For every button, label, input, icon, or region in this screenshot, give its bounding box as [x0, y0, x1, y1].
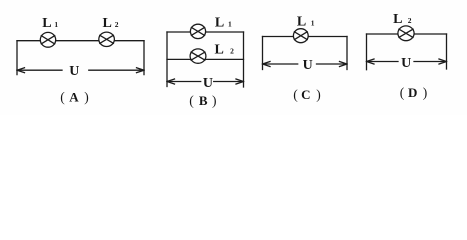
- circuit D right vertical wire: [446, 34, 448, 69]
- circuit A top wire: [17, 40, 144, 42]
- circuit B right vertical wire: [243, 32, 245, 87]
- lamp L1 (circuit A): [40, 32, 55, 47]
- label L1 of lamp L1 (circuit A): [42, 16, 58, 31]
- svg-text:L: L: [215, 43, 224, 58]
- svg-text:L: L: [103, 16, 112, 31]
- svg-text:): ): [316, 87, 321, 102]
- circuit B left vertical wire: [166, 32, 168, 87]
- circuit D left vertical wire: [366, 34, 368, 70]
- svg-text:D: D: [408, 85, 417, 100]
- circuit A right vertical wire: [143, 41, 145, 75]
- svg-text:): ): [212, 93, 217, 108]
- svg-text:2: 2: [408, 16, 412, 25]
- svg-text:L: L: [297, 15, 306, 30]
- svg-text:B: B: [199, 93, 208, 108]
- svg-text:A: A: [69, 90, 79, 105]
- voltage arrow U (circuit D): [367, 59, 447, 64]
- svg-text:2: 2: [115, 20, 119, 29]
- svg-text:U: U: [203, 76, 213, 91]
- label L1 of lamp L1 (circuit C): [297, 15, 315, 30]
- svg-text:L: L: [42, 16, 51, 31]
- svg-text:C: C: [301, 87, 310, 102]
- circuit C right vertical wire: [346, 37, 348, 70]
- label L2 of lamp L2 (circuit D): [393, 12, 412, 27]
- svg-text:(: (: [189, 93, 194, 108]
- svg-text:L: L: [393, 12, 402, 27]
- svg-text:(: (: [293, 87, 298, 102]
- circuit B top rail: [167, 31, 244, 33]
- svg-text:U: U: [69, 64, 79, 79]
- lamp L2 (circuit D): [398, 26, 414, 41]
- caption (B): [189, 93, 216, 108]
- svg-text:U: U: [401, 56, 411, 71]
- lamp L2 (circuit A): [99, 32, 115, 46]
- svg-text:L: L: [215, 15, 224, 30]
- circuit B bottom rail: [167, 58, 244, 60]
- svg-text:(: (: [60, 90, 65, 105]
- svg-text:U: U: [303, 58, 313, 73]
- voltage arrow U (circuit A): [17, 68, 144, 73]
- label L1 of lamp L1 (circuit B): [215, 15, 232, 30]
- circuit D top wire: [367, 33, 447, 35]
- svg-text:(: (: [400, 85, 405, 100]
- svg-text:): ): [423, 85, 428, 100]
- circuit A left vertical wire: [16, 41, 18, 75]
- svg-text:1: 1: [311, 19, 315, 28]
- svg-text:): ): [84, 90, 89, 105]
- svg-text:2: 2: [230, 47, 234, 56]
- caption (C): [293, 87, 321, 102]
- circuit C top wire: [263, 36, 348, 38]
- circuit C left vertical wire: [262, 37, 264, 70]
- lamp L1 (circuit C): [293, 29, 308, 43]
- caption (A): [60, 90, 89, 105]
- label L2 of lamp L2 (circuit B): [215, 43, 235, 58]
- voltage arrow U (circuit B): [167, 79, 244, 84]
- svg-text:1: 1: [54, 20, 58, 29]
- svg-text:1: 1: [228, 19, 232, 28]
- caption (D): [400, 85, 428, 100]
- lamp L2 (circuit B): [190, 49, 206, 63]
- lamp L1 (circuit B): [190, 24, 205, 38]
- voltage arrow U (circuit C): [263, 62, 348, 67]
- label L2 of lamp L2 (circuit A): [103, 16, 119, 31]
